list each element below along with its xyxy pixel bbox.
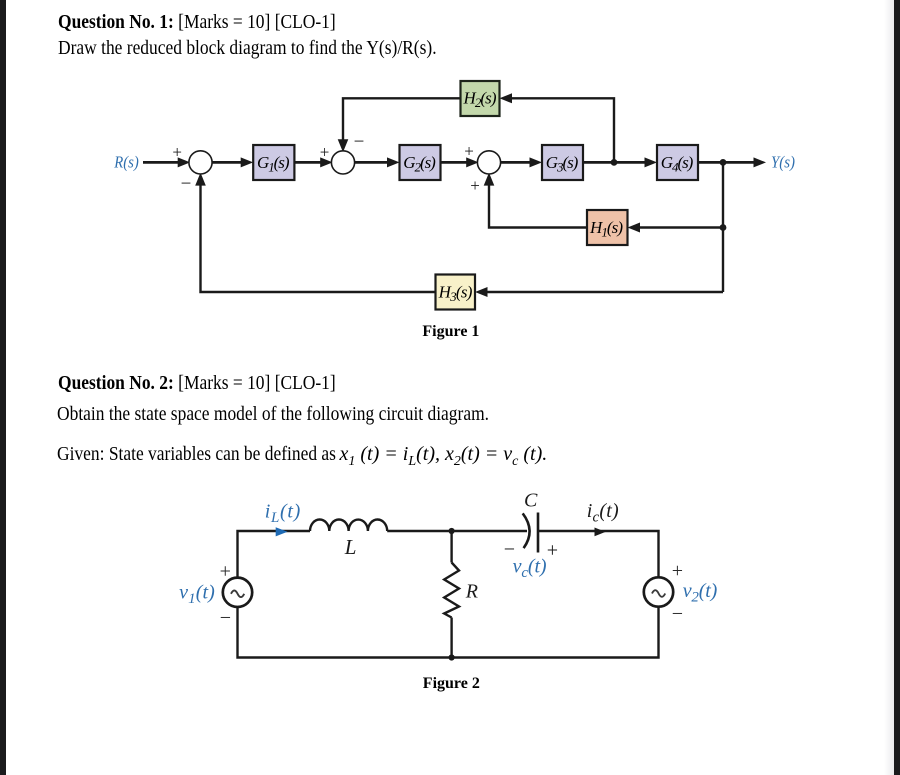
Question 2 given (regular part) <box>57 444 336 464</box>
arrow into G2 <box>387 157 400 167</box>
source V1 sine symbol <box>231 591 244 598</box>
junction dot after G3 <box>611 159 618 166</box>
Question 1 body <box>58 38 437 58</box>
left dark edge strip <box>0 0 6 775</box>
wire R(s) to sum1 <box>143 161 182 164</box>
wire H1 output up into sum3 <box>489 181 587 228</box>
capacitor C left curved plate <box>523 513 530 548</box>
svg-text:−: − <box>672 603 683 625</box>
resistor R top lead <box>450 531 452 563</box>
svg-text:G2(s): G2(s) <box>403 153 436 175</box>
arrow into sum3 <box>466 157 479 167</box>
resistor R zigzag <box>444 563 459 618</box>
svg-text:+: + <box>547 540 558 562</box>
wire sum2 to G2 <box>353 161 392 164</box>
svg-text:G3(s): G3(s) <box>546 153 579 175</box>
wire sum1 to G1 <box>211 161 246 164</box>
capacitor C right plate <box>537 513 540 553</box>
svg-text:−: − <box>354 132 365 153</box>
block H1 <box>587 210 628 245</box>
wire G4 to Y(s) <box>698 161 757 164</box>
wire inductor to capacitor <box>387 530 527 532</box>
svg-text:iL(t): iL(t) <box>265 500 301 526</box>
svg-text:+: + <box>464 142 474 161</box>
block G3 <box>542 145 583 180</box>
svg-text:R: R <box>465 580 478 602</box>
svg-text:vc(t): vc(t) <box>513 556 547 582</box>
wire G1 to sum2 <box>294 161 325 164</box>
svg-text:+: + <box>320 142 330 161</box>
svg-text:+: + <box>470 176 480 195</box>
wire top left <box>238 531 311 578</box>
arrow into sum2 <box>320 157 333 167</box>
Figure 1 block diagram <box>100 75 810 320</box>
svg-text:L: L <box>344 535 357 559</box>
block G2 <box>400 145 441 180</box>
arrow into G1 <box>241 157 254 167</box>
junction dot bottom of R <box>449 654 455 660</box>
Question 1 heading <box>58 12 336 32</box>
wire G2 to sum3 <box>441 161 472 164</box>
black current arrow ic <box>595 528 606 537</box>
wire v1 bottom to bottom rail to v2 bottom <box>238 607 659 658</box>
arrow into G3 <box>530 157 543 167</box>
Question 2 body <box>57 404 489 424</box>
wire into H1 <box>636 226 723 228</box>
svg-text:+: + <box>172 143 182 162</box>
summing junction S3 <box>477 151 500 174</box>
arrow up into sum3 from H1 <box>484 173 495 186</box>
arrow into sum1 <box>178 157 191 167</box>
Figure 2 caption <box>423 676 480 692</box>
svg-text:H3(s): H3(s) <box>438 282 473 304</box>
arrow into G4 <box>645 157 658 167</box>
source V2 circle <box>644 577 673 606</box>
arrow to Y(s) <box>754 157 767 167</box>
arrow into H2 right side <box>500 93 513 103</box>
inductor L <box>310 520 387 532</box>
svg-text:ic(t): ic(t) <box>587 500 619 526</box>
svg-text:C: C <box>524 489 538 511</box>
svg-text:−: − <box>181 173 192 194</box>
block G4 <box>657 145 698 180</box>
block H3 <box>436 275 476 310</box>
svg-text:Y(s): Y(s) <box>771 152 795 171</box>
svg-text:+: + <box>672 560 683 582</box>
svg-text:v1(t): v1(t) <box>179 581 215 607</box>
Question 2 given (math part) <box>340 444 548 472</box>
source V1 circle <box>223 578 252 607</box>
summing junction S2 <box>331 151 354 174</box>
junction dot top of R <box>449 528 455 534</box>
block H2 <box>461 81 500 116</box>
summing junction S1 <box>189 151 212 174</box>
Figure 1 caption <box>422 324 479 340</box>
resistor R bottom lead <box>450 618 452 658</box>
arrow into H1 right side <box>628 223 641 233</box>
svg-text:−: − <box>220 607 231 629</box>
svg-text:G1(s): G1(s) <box>257 153 290 175</box>
svg-text:R(s): R(s) <box>113 152 138 171</box>
wire into H3 <box>484 291 723 293</box>
wire sum3 to G3 <box>499 161 535 164</box>
wire H3 output up into sum1 <box>201 181 436 292</box>
svg-text:H2(s): H2(s) <box>463 89 497 111</box>
right dark edge strip <box>894 0 900 775</box>
wire tap after G3 up to H2 input <box>508 98 614 162</box>
wire tap after G4 down to H3 row <box>722 162 724 292</box>
svg-text:H1(s): H1(s) <box>589 218 623 240</box>
arrowheads <box>178 93 766 297</box>
wire H2 output down into sum2 <box>343 98 461 143</box>
right faint shading <box>884 0 894 775</box>
svg-text:+: + <box>220 561 231 583</box>
arrow down into sum2 from H2 <box>338 139 349 152</box>
Figure 2 circuit <box>160 480 760 695</box>
wire G3 to G4 <box>583 161 650 164</box>
block G1 <box>253 145 294 180</box>
blue current arrow iL <box>276 527 288 536</box>
source V2 sine symbol <box>652 590 665 597</box>
arrow up into sum1 from H3 <box>195 173 206 186</box>
svg-text:G4(s): G4(s) <box>661 153 694 175</box>
junction dot H1 row <box>720 224 727 231</box>
svg-text:v2(t): v2(t) <box>683 580 718 606</box>
arrow into H3 right side <box>475 287 488 297</box>
junction dot after G4 <box>720 159 727 166</box>
Question 2 heading <box>58 373 336 393</box>
wire capacitor right plate to right corner <box>538 531 659 577</box>
